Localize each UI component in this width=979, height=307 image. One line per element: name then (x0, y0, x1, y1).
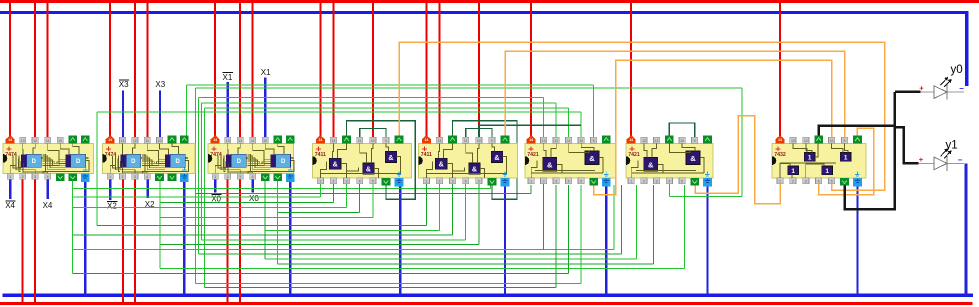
svg-text:7421: 7421 (527, 152, 539, 158)
svg-text:3: 3 (34, 175, 36, 179)
svg-text:7474: 7474 (5, 152, 17, 158)
svg-text:1: 1 (825, 168, 829, 175)
svg-text:12: 12 (554, 139, 558, 143)
svg-text:4: 4 (359, 180, 361, 184)
svg-text:X3: X3 (155, 80, 165, 89)
svg-text:&: & (547, 161, 553, 170)
svg-text:1: 1 (426, 180, 428, 184)
svg-text:14: 14 (8, 138, 12, 142)
svg-text:4: 4 (568, 180, 570, 184)
svg-text:X4: X4 (5, 201, 15, 210)
svg-text:10: 10 (263, 139, 267, 143)
svg-text:1: 1 (214, 175, 216, 179)
svg-text:14: 14 (425, 138, 429, 142)
svg-text:9: 9 (593, 139, 595, 143)
svg-text:13: 13 (438, 139, 442, 143)
svg-text:&: & (589, 154, 595, 163)
svg-text:X3: X3 (119, 80, 129, 89)
svg-text:−: − (959, 84, 964, 93)
svg-text:3: 3 (346, 180, 348, 184)
svg-text:7432: 7432 (774, 152, 786, 158)
svg-text:14: 14 (778, 138, 782, 142)
svg-text:+: + (919, 155, 924, 164)
svg-text:9: 9 (844, 139, 846, 143)
svg-text:D: D (237, 159, 242, 165)
svg-text:13: 13 (226, 139, 230, 143)
svg-text:4: 4 (47, 175, 49, 179)
svg-text:10: 10 (371, 139, 375, 143)
svg-text:D: D (76, 159, 81, 165)
svg-text:1: 1 (530, 180, 532, 184)
svg-text:1: 1 (630, 180, 632, 184)
svg-text:X0: X0 (249, 194, 259, 203)
svg-text:12: 12 (804, 139, 808, 143)
svg-text:14: 14 (629, 138, 633, 142)
svg-text:10: 10 (158, 139, 162, 143)
svg-text:14: 14 (108, 138, 112, 142)
svg-text:3: 3 (805, 180, 807, 184)
svg-text:&: & (690, 154, 696, 163)
svg-text:4: 4 (252, 175, 254, 179)
svg-text:13: 13 (121, 139, 125, 143)
svg-text:D: D (176, 159, 181, 165)
svg-text:3: 3 (452, 180, 454, 184)
svg-text:D: D (131, 159, 136, 165)
svg-text:11: 11 (146, 139, 150, 143)
svg-text:12: 12 (238, 139, 242, 143)
svg-text:y0: y0 (951, 64, 963, 76)
svg-text:13: 13 (332, 139, 336, 143)
svg-text:9: 9 (491, 139, 493, 143)
svg-text:D: D (32, 159, 37, 165)
svg-text:7411: 7411 (315, 152, 326, 158)
svg-text:X1: X1 (223, 73, 233, 82)
svg-text:10: 10 (579, 139, 583, 143)
svg-text:11: 11 (464, 139, 468, 143)
svg-text:&: & (439, 162, 444, 169)
svg-text:5: 5 (580, 180, 582, 184)
svg-text:1: 1 (808, 154, 812, 161)
svg-text:4: 4 (146, 175, 148, 179)
svg-text:9: 9 (694, 139, 696, 143)
svg-text:2: 2 (227, 175, 229, 179)
svg-text:2: 2 (22, 175, 24, 179)
svg-text:5: 5 (681, 180, 683, 184)
svg-text:2: 2 (122, 175, 124, 179)
svg-text:5: 5 (372, 180, 374, 184)
svg-text:1: 1 (791, 168, 795, 175)
svg-text:2: 2 (643, 180, 645, 184)
svg-text:14: 14 (319, 138, 323, 142)
svg-text:12: 12 (133, 139, 137, 143)
svg-text:&: & (648, 161, 654, 170)
svg-text:&: & (366, 167, 371, 174)
svg-text:10: 10 (680, 139, 684, 143)
svg-text:3: 3 (555, 180, 557, 184)
svg-text:10: 10 (477, 139, 481, 143)
svg-text:X4: X4 (43, 201, 53, 210)
svg-text:1: 1 (320, 180, 322, 184)
svg-text:14: 14 (529, 138, 533, 142)
svg-text:5: 5 (478, 180, 480, 184)
svg-text:13: 13 (21, 139, 25, 143)
svg-text:7421: 7421 (628, 152, 640, 158)
svg-text:9: 9 (385, 139, 387, 143)
svg-text:13: 13 (791, 139, 795, 143)
svg-text:11: 11 (46, 139, 50, 143)
svg-text:7474: 7474 (210, 152, 222, 158)
svg-text:4: 4 (668, 180, 670, 184)
svg-text:3: 3 (239, 175, 241, 179)
svg-text:−: − (958, 155, 963, 164)
svg-text:&: & (494, 155, 499, 162)
svg-text:2: 2 (439, 180, 441, 184)
svg-text:2: 2 (543, 180, 545, 184)
svg-text:1: 1 (844, 154, 848, 161)
svg-text:X1: X1 (261, 68, 271, 77)
svg-text:11: 11 (358, 139, 362, 143)
svg-text:13: 13 (542, 139, 546, 143)
svg-text:2: 2 (333, 180, 335, 184)
svg-text:&: & (472, 167, 477, 174)
svg-text:7411: 7411 (421, 152, 432, 158)
svg-text:+: + (919, 84, 924, 93)
svg-text:4: 4 (818, 180, 820, 184)
svg-text:12: 12 (33, 139, 37, 143)
svg-text:3: 3 (134, 175, 136, 179)
svg-text:10: 10 (830, 139, 834, 143)
svg-text:&: & (388, 155, 393, 162)
svg-text:D: D (281, 159, 286, 165)
svg-text:14: 14 (213, 138, 217, 142)
svg-text:4: 4 (465, 180, 467, 184)
svg-text:X2: X2 (107, 202, 117, 211)
svg-text:7474: 7474 (105, 152, 117, 158)
svg-text:1: 1 (779, 180, 781, 184)
svg-text:11: 11 (567, 139, 571, 143)
svg-text:10: 10 (58, 139, 62, 143)
svg-text:11: 11 (251, 139, 255, 143)
svg-text:12: 12 (655, 139, 659, 143)
svg-text:&: & (333, 162, 338, 169)
svg-text:5: 5 (831, 180, 833, 184)
svg-text:y1: y1 (946, 140, 958, 152)
svg-text:1: 1 (9, 175, 11, 179)
svg-text:3: 3 (656, 180, 658, 184)
svg-text:1: 1 (109, 175, 111, 179)
svg-text:2: 2 (792, 180, 794, 184)
svg-text:13: 13 (642, 139, 646, 143)
